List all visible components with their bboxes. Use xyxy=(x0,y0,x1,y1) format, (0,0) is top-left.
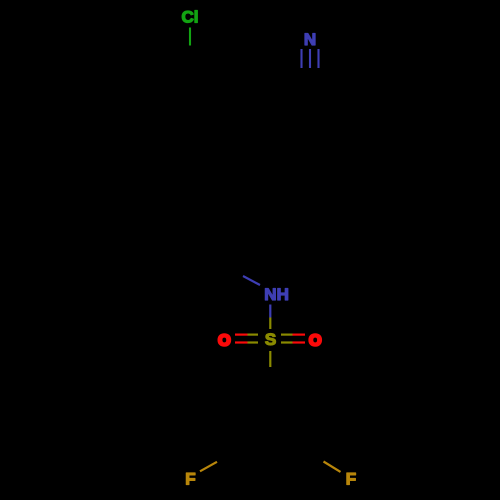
svg-text:O: O xyxy=(309,332,321,349)
svg-text:N: N xyxy=(304,30,316,49)
bond C-F left (fluorine half, goldenrod) xyxy=(200,462,217,472)
bond Cl-C (chlorine half, green) xyxy=(189,28,191,46)
bond C-F right (fluorine half, goldenrod) xyxy=(324,462,341,472)
bond CH2-N (nitrogen half, blue) xyxy=(243,276,260,285)
double bond S=O right (sulfur halves, olive) xyxy=(281,335,293,343)
svg-text:NH: NH xyxy=(264,285,289,304)
double bond S=O left (sulfur halves, olive) xyxy=(248,335,259,343)
bond N-S (nitrogen half, blue) xyxy=(269,305,271,318)
double bond S=O right (oxygen halves, red) xyxy=(293,335,306,343)
double bond S=O left (oxygen halves, red) xyxy=(235,335,248,343)
svg-text:O: O xyxy=(218,332,230,349)
bond N-S (sulfur half, olive) xyxy=(269,318,271,330)
svg-text:S: S xyxy=(265,330,276,349)
triple bond C#N (nitrogen halves, blue) xyxy=(302,49,319,68)
svg-text:F: F xyxy=(185,469,195,488)
svg-text:Cl: Cl xyxy=(182,7,199,26)
svg-text:F: F xyxy=(346,469,356,488)
bond S-C ring (sulfur half, olive) xyxy=(269,351,271,367)
